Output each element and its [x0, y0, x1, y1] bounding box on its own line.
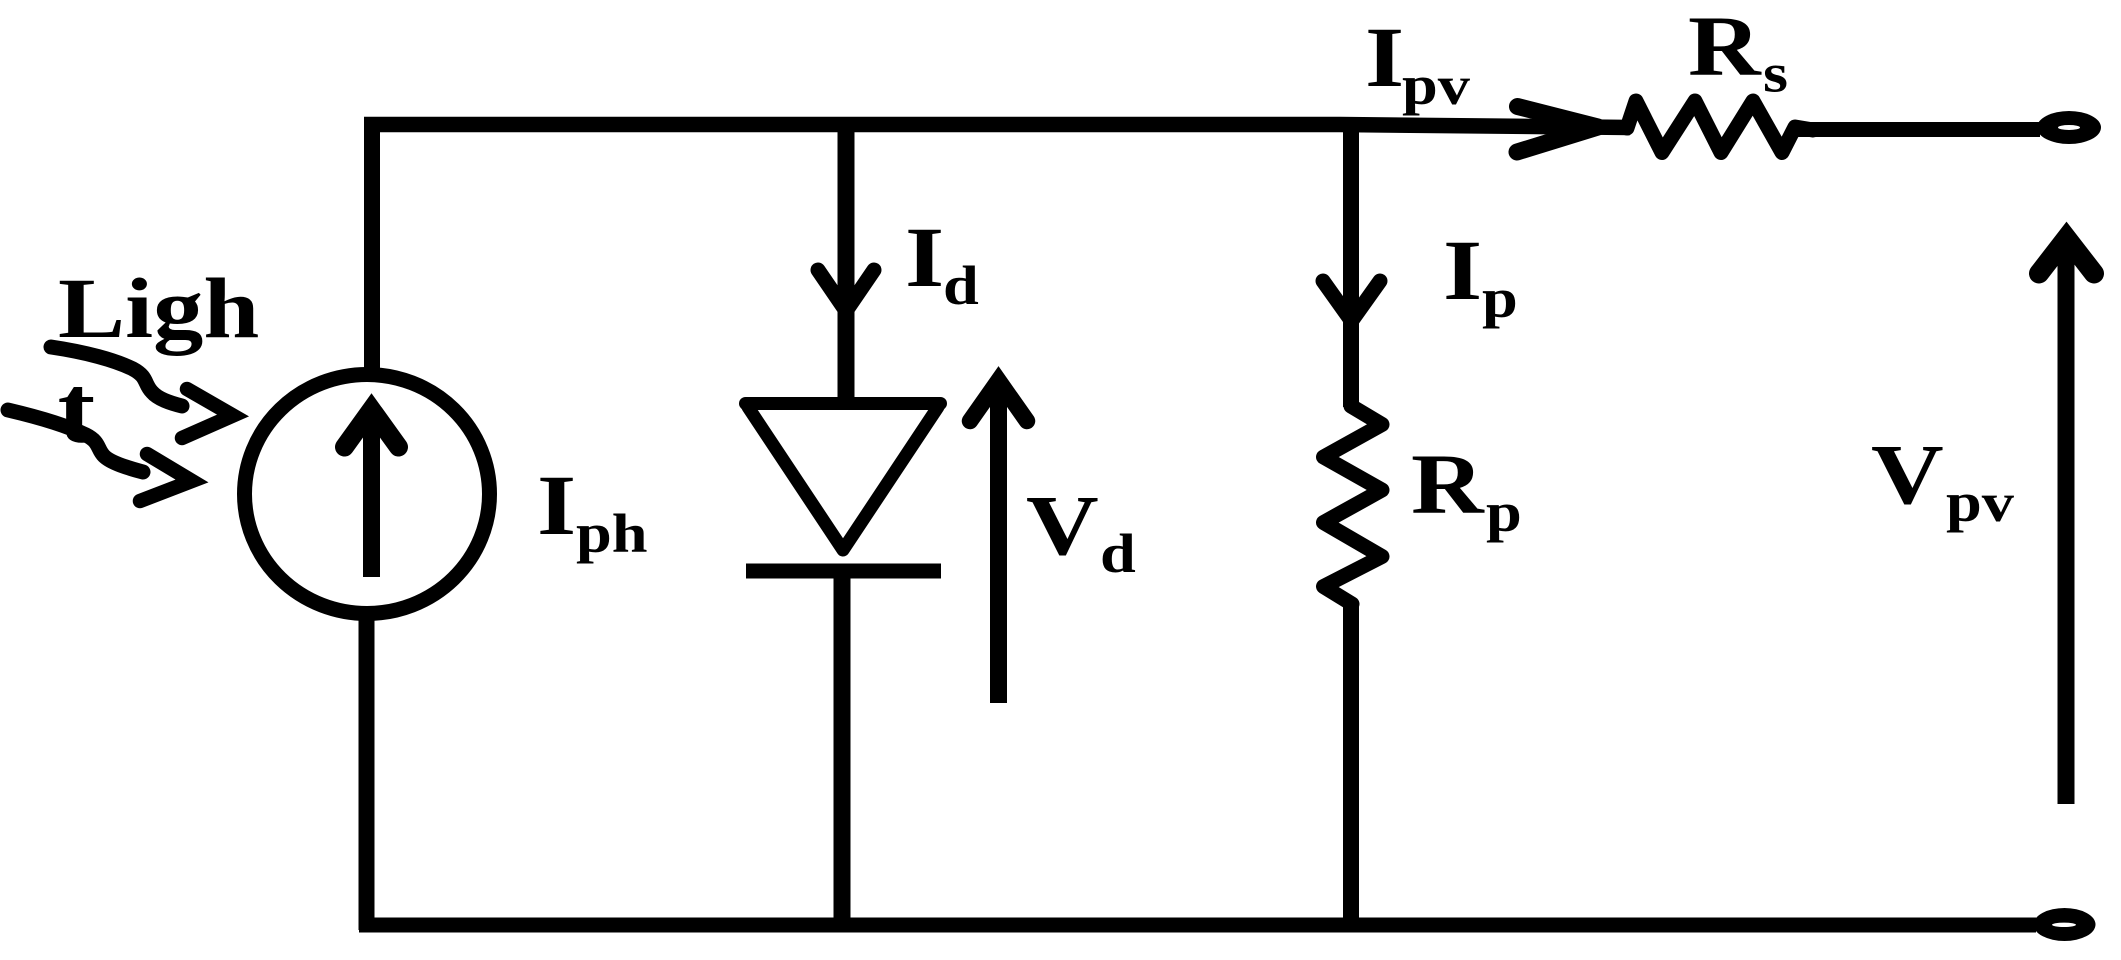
- svg-text:I: I: [1365, 11, 1404, 106]
- svg-text:d: d: [1100, 523, 1136, 584]
- svg-text:d: d: [943, 255, 979, 316]
- svg-text:R: R: [1411, 438, 1485, 533]
- svg-text:I: I: [905, 211, 944, 306]
- svg-text:I: I: [1443, 224, 1482, 319]
- svg-text:p: p: [1482, 268, 1518, 329]
- svg-text:pv: pv: [1402, 55, 1470, 116]
- svg-text:I: I: [537, 459, 576, 554]
- svg-text:Ligh: Ligh: [58, 262, 259, 357]
- svg-text:R: R: [1688, 0, 1762, 94]
- svg-text:V: V: [1871, 428, 1944, 523]
- svg-text:ph: ph: [576, 503, 648, 564]
- svg-text:p: p: [1486, 482, 1522, 543]
- svg-text:s: s: [1763, 43, 1788, 104]
- svg-text:t: t: [58, 356, 96, 464]
- svg-text:V: V: [1026, 479, 1099, 574]
- svg-text:pv: pv: [1946, 472, 2014, 533]
